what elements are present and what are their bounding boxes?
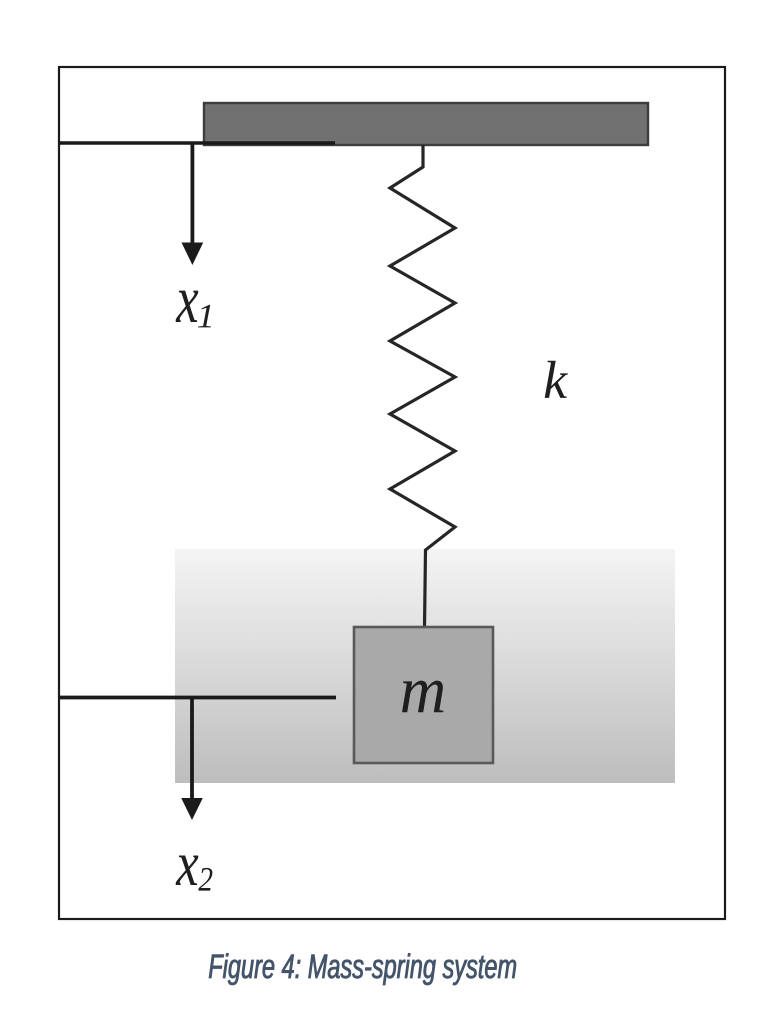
arrow x2 stem: [190, 698, 194, 801]
frame border: [59, 67, 725, 919]
label k: [545, 361, 568, 398]
label x2 glyph x: [176, 856, 199, 886]
reference line x2: [58, 696, 336, 700]
label x1 subscript 1: [198, 305, 211, 328]
ceiling bar: [204, 103, 648, 145]
gradient floor region: [175, 549, 675, 783]
mass block m: [354, 627, 493, 763]
label x2 subscript 2: [198, 868, 212, 891]
caption: Figure 4: Mass-spring system: [209, 953, 516, 985]
spring k: [390, 145, 455, 627]
arrow x1 stem: [190, 143, 194, 245]
label x1 glyph x: [176, 291, 199, 322]
label m: [402, 681, 443, 713]
arrow x1 head: [182, 243, 204, 266]
reference line x1: [58, 141, 335, 145]
arrow x2 head: [181, 798, 203, 820]
